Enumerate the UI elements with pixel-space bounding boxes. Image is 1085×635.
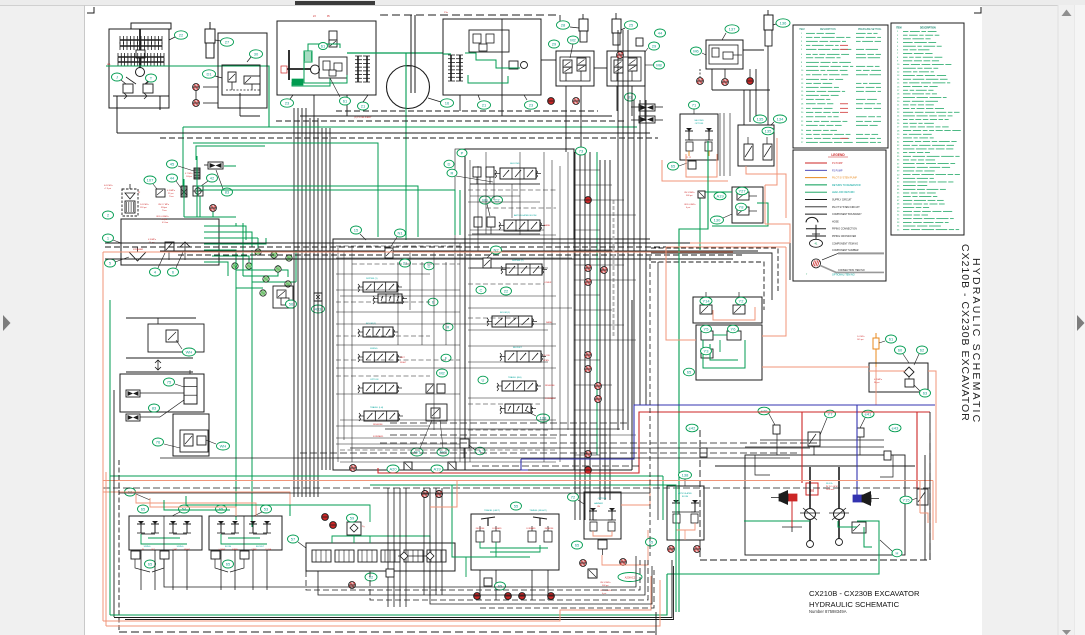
supply bus top: [117, 111, 658, 138]
callout P manifold: [457, 149, 467, 157]
svg-text:LEGEND: LEGEND: [831, 153, 845, 157]
callout 73: [576, 147, 587, 155]
svg-text:HYDRAULIC SCHEMATIC: HYDRAULIC SCHEMATIC: [809, 600, 900, 609]
svg-text:Number 87598349A: Number 87598349A: [809, 609, 847, 614]
svg-text:23: 23: [529, 102, 534, 107]
svg-text:508 psi: 508 psi: [686, 195, 693, 197]
callout 134: [771, 115, 787, 125]
green line block71 down: [679, 141, 708, 612]
travel speed solenoid Y7: [808, 432, 820, 455]
check point D1b: [193, 100, 200, 107]
joystick control box right: [209, 516, 282, 551]
svg-text:65: 65: [226, 561, 231, 566]
callout 61 pump: [330, 78, 351, 105]
shuttle boxes under joystick right: [211, 551, 249, 572]
manifold internal plumbing web: [336, 152, 636, 462]
callout 25: [621, 21, 638, 30]
red note 72: [600, 582, 612, 595]
svg-text:76: 76: [156, 439, 161, 444]
svg-text:Y15: Y15: [902, 497, 910, 502]
A19 pilot square: [698, 191, 705, 198]
articulated boom pedal block 138: [667, 486, 704, 540]
svg-text:57: 57: [291, 536, 296, 541]
callout 16: [428, 98, 454, 107]
solenoid block 29 right: [607, 51, 645, 86]
svg-text:65: 65: [141, 506, 146, 511]
svg-text:TRAVEL (RH): TRAVEL (RH): [508, 376, 522, 379]
module red labels: [373, 224, 556, 438]
svg-text:21: 21: [361, 103, 366, 108]
svg-text:0.7 MPa: 0.7 MPa: [185, 173, 193, 175]
solenoid A: [460, 439, 469, 458]
callout 60: [895, 346, 910, 363]
svg-text:27: 27: [225, 39, 230, 44]
counterbalance spool: [782, 522, 866, 533]
red brake cylinder: [771, 490, 797, 505]
spool dipper2: [501, 260, 547, 275]
svg-text:45: 45: [170, 161, 175, 166]
svg-text:135: 135: [757, 116, 764, 121]
callout 135b: [762, 127, 774, 135]
accumulator 28: [579, 14, 588, 42]
callout e43 far right: [889, 424, 901, 432]
svg-text:ITEM: ITEM: [896, 28, 902, 30]
svg-text:A20: A20: [389, 466, 397, 471]
spool swing: [358, 348, 402, 362]
svg-text:Pg: Pg: [362, 526, 364, 528]
callout 29 left: [549, 40, 560, 48]
check points right column: [350, 52, 624, 474]
svg-text:SUPPLY CIRCUIT: SUPPLY CIRCUIT: [832, 199, 852, 202]
svg-text:P: P: [461, 150, 464, 155]
pilot check circle cluster: [232, 249, 292, 296]
pump green piping loop: [292, 44, 443, 86]
svg-text:RIGHT: RIGHT: [400, 362, 407, 364]
legend box: [793, 150, 886, 281]
component 44 with callout: [167, 174, 188, 198]
svg-text:LEFT: LEFT: [400, 357, 406, 359]
svg-text:DESCRIPTION: DESCRIPTION: [920, 28, 936, 30]
svg-text:REVERSE: REVERSE: [476, 528, 485, 530]
svg-text:73: 73: [579, 148, 584, 153]
svg-text:FORWARD: FORWARD: [373, 435, 384, 438]
callout 65 jr: [216, 505, 227, 513]
travel motor swash right: [829, 467, 849, 546]
svg-text:e42: e42: [689, 425, 696, 430]
regeneration valve N2: [470, 258, 510, 268]
right nav arrow: [1077, 315, 1085, 331]
salmon pilot long: [103, 481, 933, 541]
callout 130: [711, 214, 733, 224]
svg-text:138: 138: [682, 472, 689, 477]
svg-text:RIGHT: RIGHT: [184, 549, 190, 551]
callout e42 far: [686, 424, 698, 432]
joystick drop lines: [141, 550, 267, 590]
check 72a: [580, 560, 587, 567]
motor gearbox M: [806, 483, 838, 495]
salmon pilot band: [103, 243, 790, 252]
reservoir box 1: [121, 219, 219, 265]
page corner mark top-right: [974, 7, 981, 13]
svg-text:7.3 psi: 7.3 psi: [161, 219, 167, 221]
svg-text:22 psi: 22 psi: [168, 193, 174, 195]
joystick control box left: [129, 516, 202, 551]
boost check box: [426, 404, 447, 421]
straight travel spool: [500, 404, 536, 414]
shuttle under block71: [688, 161, 696, 169]
callout 72: [568, 493, 585, 504]
second pump piston group: [448, 55, 463, 81]
check point D1a: [193, 84, 200, 91]
svg-text:65: 65: [649, 539, 654, 544]
callout 53: [254, 505, 272, 516]
svg-text:J: J: [116, 74, 118, 79]
bottom return bus: [103, 560, 674, 635]
svg-text:RETURN TO RESERVOIR: RETURN TO RESERVOIR: [832, 184, 861, 187]
blue P2 route: [521, 405, 935, 495]
spool travel rh: [497, 376, 541, 391]
right side descenders: [650, 256, 936, 560]
spool articulated boom: [499, 214, 545, 231]
drops from solenoid blocks 29: [541, 60, 645, 152]
green pilot feeds into manifold: [193, 143, 460, 237]
svg-text:60: 60: [898, 347, 903, 352]
callout 63: [914, 385, 931, 397]
svg-text:ARTICULATED: ARTICULATED: [678, 492, 692, 495]
svg-text:TRAVEL (LH): TRAVEL (LH): [370, 406, 383, 409]
svg-text:44: 44: [658, 30, 663, 35]
callout 65 block71: [668, 162, 688, 170]
svg-text:Y8: Y8: [739, 204, 745, 209]
svg-text:135: 135: [765, 128, 772, 133]
svg-text:M2: M2: [439, 370, 445, 375]
green lines block130: [700, 192, 768, 250]
pump piston group P1: [355, 56, 370, 82]
svg-text:P1 PUMP: P1 PUMP: [832, 162, 843, 165]
svg-text:0 psi: 0 psi: [686, 207, 691, 209]
page corner mark top-left: [87, 7, 94, 13]
svg-text:DESCRIPTION: DESCRIPTION: [820, 29, 836, 31]
scrollbar down arrow: [1062, 630, 1071, 635]
control valve manifold outer boundary: [333, 149, 632, 470]
svg-text:WH: WH: [220, 443, 227, 448]
pilot pump cylinder 27: [205, 22, 215, 58]
svg-text:65: 65: [498, 583, 503, 588]
spool bucket: [500, 347, 546, 362]
svg-text:16: 16: [445, 100, 450, 105]
svg-text:83: 83: [152, 405, 157, 410]
svg-text:21: 21: [482, 102, 487, 107]
svg-text:R: R: [451, 170, 454, 175]
pressure setting table: [793, 25, 888, 148]
svg-text:1.0 MPa: 1.0 MPa: [857, 336, 865, 338]
svg-text:62: 62: [920, 347, 925, 352]
svg-text:Y6: Y6: [731, 326, 737, 331]
callout M2 manifold: [437, 369, 448, 377]
spool second option: [495, 163, 541, 179]
svg-text:7 bar: 7 bar: [162, 210, 167, 212]
svg-text:LOWER: LOWER: [544, 282, 552, 284]
spool boom1: [487, 312, 537, 327]
salmon line 134 down: [746, 138, 786, 218]
svg-text:OPTIONAL ITEM NO: OPTIONAL ITEM NO: [832, 273, 855, 276]
second pump internals: [469, 19, 528, 95]
callout 138: [679, 471, 692, 486]
solenoid component 44: [636, 38, 643, 46]
svg-text:65: 65: [575, 542, 580, 547]
svg-text:OPTION: OPTION: [695, 123, 704, 125]
callout WH lower: [206, 440, 230, 450]
wires 136 down: [744, 46, 768, 125]
svg-text:+7.3 psi: +7.3 psi: [104, 188, 112, 190]
check top left: [210, 205, 217, 212]
svg-text:C: C: [480, 287, 483, 292]
svg-text:134: 134: [777, 116, 784, 121]
svg-text:LEAK-OFF RETURN: LEAK-OFF RETURN: [832, 191, 855, 194]
svg-text:29: 29: [652, 43, 657, 48]
callout 21c: [400, 259, 411, 267]
accumulator 25: [612, 13, 621, 45]
svg-text:STRAINER: STRAINER: [133, 248, 144, 251]
svg-text:PIPING CONNECTION: PIPING CONNECTION: [832, 228, 857, 231]
svg-text:ITEM: ITEM: [799, 29, 805, 31]
svg-text:75: 75: [167, 379, 172, 384]
svg-text:M8: M8: [656, 62, 662, 67]
check point 29L: [548, 98, 555, 105]
svg-text:SWING: SWING: [144, 546, 151, 548]
check drop a: [422, 491, 429, 498]
svg-text:OFF 0.0MPa: OFF 0.0MPa: [684, 204, 696, 206]
component 45 with callout: [167, 160, 201, 179]
callout A20: [387, 465, 399, 473]
callout 4: [150, 253, 166, 276]
callout 28: [557, 21, 580, 29]
gearbox suction lines: [107, 63, 160, 133]
svg-text:DIPPER (2): DIPPER (2): [512, 260, 524, 262]
callout T pump right: [145, 74, 157, 84]
callout C2: [492, 196, 503, 204]
callout 65 travel: [495, 582, 506, 590]
pilot block A20: [404, 462, 412, 470]
svg-text:22: 22: [179, 32, 184, 37]
salmon lines swing block: [666, 247, 786, 340]
svg-text:145 psi: 145 psi: [857, 339, 864, 341]
svg-text:1.05 MPa: 1.05 MPa: [140, 204, 149, 206]
svg-text:D1: D1: [206, 71, 212, 76]
green drops components: [184, 156, 236, 217]
callout H motor: [880, 540, 902, 557]
callout 62: [914, 346, 928, 365]
callout Y7: [818, 410, 836, 440]
svg-text:HOSE: HOSE: [832, 220, 839, 223]
callout 65 jl: [138, 505, 149, 513]
svg-text:M2: M2: [570, 37, 576, 42]
svg-text:PIPING CROSSOVER: PIPING CROSSOVER: [832, 235, 856, 238]
callout M8: [645, 61, 665, 69]
red P1 route: [378, 412, 930, 489]
return filter 2: [104, 184, 149, 216]
main relief M2: [426, 384, 445, 393]
bus staircase right: [651, 243, 790, 310]
callout Y27: [736, 187, 748, 195]
gray hose pair: [720, 113, 730, 176]
spool travel lh: [359, 406, 403, 421]
callout 65 boom opt: [646, 538, 657, 546]
svg-text:0.05 MPa: 0.05 MPa: [104, 185, 113, 187]
relief valve block right: [917, 489, 928, 505]
bowtie 75a: [126, 390, 184, 397]
drop structure below 57: [386, 488, 442, 607]
callout AV2: [437, 420, 449, 456]
check drop b: [436, 491, 443, 498]
green riser to 57: [236, 505, 466, 577]
svg-text:0.35MPa: 0.35MPa: [148, 239, 157, 241]
salmon right column: [920, 480, 928, 523]
svg-text:72: 72: [571, 494, 576, 499]
svg-text:36 psi: 36 psi: [874, 382, 880, 384]
svg-text:62: 62: [369, 574, 374, 579]
svg-text:ON 2.7 MPa: ON 2.7 MPa: [158, 204, 170, 206]
svg-text:e40: e40: [761, 408, 768, 413]
check 138b: [694, 546, 701, 553]
callout 433: [312, 305, 325, 313]
callout 137: [722, 25, 739, 40]
salmon feeds joystick: [103, 492, 290, 516]
check 57a: [322, 514, 329, 521]
svg-text:TRAVEL (LEFT): TRAVEL (LEFT): [484, 509, 500, 512]
svg-text:21 22: 21 22: [686, 157, 692, 159]
pressure switch WH top: [126, 318, 204, 352]
svg-text:21: 21: [403, 260, 408, 265]
svg-text:0.5 bar: 0.5 bar: [162, 222, 169, 224]
aux module left: [373, 294, 407, 304]
svg-text:0.15MPa: 0.15MPa: [167, 190, 176, 192]
callout 65 opt: [572, 541, 583, 549]
callout N1: [390, 229, 406, 248]
callout 61 right: [879, 335, 897, 343]
svg-text:SWING: SWING: [177, 546, 184, 548]
svg-text:BOOM (1): BOOM (1): [500, 312, 510, 314]
svg-text:CX210B - CX230B EXCAVATOR: CX210B - CX230B EXCAVATOR: [809, 589, 920, 598]
salmon feed to block60: [762, 367, 936, 480]
valve block 137: [706, 40, 743, 69]
callout e41 right: [860, 410, 874, 428]
callout 135: [754, 115, 767, 123]
callout F: [441, 354, 451, 362]
svg-text:A19: A19: [716, 193, 724, 198]
svg-text:29: 29: [552, 41, 557, 46]
svg-text:M9: M9: [482, 197, 488, 202]
svg-text:BOOM: BOOM: [225, 546, 231, 548]
spool option: [358, 379, 402, 393]
wires 137: [700, 50, 770, 90]
svg-text:FORWARD: FORWARD: [526, 527, 536, 530]
solenoid block 56: [273, 286, 293, 308]
svg-text:HAMMER: HAMMER: [594, 502, 603, 505]
callout 6: [168, 252, 184, 276]
second option pedal block 71: [680, 114, 718, 160]
left nav arrow: [3, 315, 11, 331]
callout R manifold: [447, 169, 493, 182]
solenoid block 29 left: [556, 51, 594, 86]
title block text: [809, 589, 920, 614]
svg-text:59: 59: [350, 515, 355, 520]
callout R2: [443, 323, 453, 331]
svg-text:Y27: Y27: [738, 188, 746, 193]
callout 76: [153, 438, 181, 448]
pump green filter: [304, 51, 312, 62]
spool dipper1: [358, 278, 402, 292]
svg-text:H: H: [896, 550, 899, 555]
shuttle block 72: [598, 540, 607, 555]
vertical title text: [959, 244, 982, 424]
wires block30 to bus: [196, 87, 260, 116]
svg-text:23: 23: [285, 100, 290, 105]
svg-text:390psi: 390psi: [161, 207, 167, 209]
svg-text:PILOT SYSTEM CIRCUIT: PILOT SYSTEM CIRCUIT: [832, 206, 860, 209]
callout 54: [172, 505, 190, 516]
callout 58: [125, 488, 151, 500]
shuttle boxes under joystick left: [131, 551, 169, 572]
pump regulator internals: [281, 31, 347, 85]
second pump green piping: [443, 53, 520, 83]
callout 65 swing: [684, 368, 695, 376]
bowtie 75b: [126, 400, 184, 421]
callout 21 pump: [358, 95, 369, 110]
svg-text:R: R: [447, 324, 450, 329]
travel motor boundary: [700, 430, 930, 560]
svg-text:56: 56: [289, 301, 294, 306]
callout A19: [431, 465, 443, 473]
svg-text:REVERSE: REVERSE: [545, 528, 554, 530]
svg-text:FORWARD: FORWARD: [492, 527, 502, 530]
svg-text:CX210B - CX230B EXCAVATOR: CX210B - CX230B EXCAVATOR: [959, 244, 971, 422]
svg-text:SECOND: SECOND: [510, 163, 520, 165]
salmon feed 72: [602, 479, 650, 565]
svg-text:C2: C2: [494, 197, 500, 202]
callout Y6: [728, 325, 739, 333]
svg-text:M6: M6: [693, 48, 699, 53]
pilot manifold 57: [306, 536, 455, 571]
green supply verticals: [236, 108, 597, 527]
svg-text:Y14: Y14: [702, 298, 710, 303]
svg-text:COMPONENT ITEM NO: COMPONENT ITEM NO: [832, 242, 858, 245]
svg-text:OPEN: OPEN: [543, 360, 549, 362]
pump circle P2: [387, 15, 430, 109]
anti-drift valve N1: [385, 248, 393, 258]
svg-text:BUCKET: BUCKET: [256, 546, 265, 548]
svg-text:REVERSE: REVERSE: [373, 424, 383, 426]
svg-text:e43: e43: [892, 425, 899, 430]
callout M2: [568, 36, 579, 58]
svg-text:RAISE: RAISE: [544, 224, 551, 227]
callout J pump left: [112, 73, 127, 84]
svg-text:BOOM: BOOM: [682, 496, 688, 498]
callout 57: [288, 535, 307, 548]
svg-text:22: 22: [504, 288, 509, 293]
top page dashed tie line: [380, 15, 560, 28]
drain valve 4: [148, 239, 174, 260]
callout 83 mid: [149, 404, 160, 412]
travel pilot web: [745, 434, 893, 477]
break symbol double line: [126, 358, 193, 372]
svg-text:COMPONENT BOUNDARY: COMPONENT BOUNDARY: [832, 213, 862, 216]
red label second pump: [354, 12, 449, 119]
callout 71: [689, 101, 700, 114]
svg-text:N1: N1: [397, 230, 403, 235]
svg-text:61: 61: [889, 336, 894, 341]
svg-text:Y2: Y2: [739, 298, 745, 303]
